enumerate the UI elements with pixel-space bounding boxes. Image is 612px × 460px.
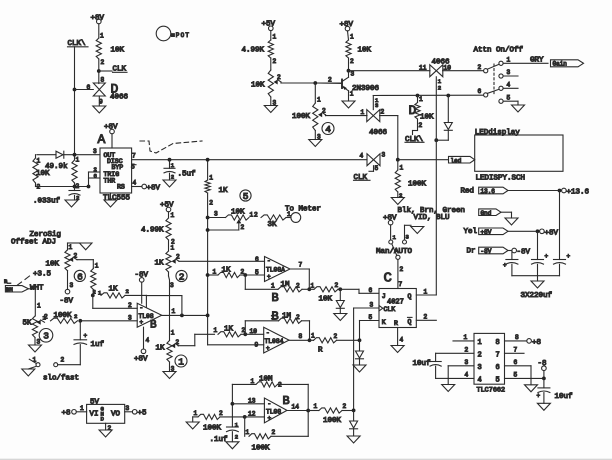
svg-text:1: 1 [314, 403, 318, 410]
svg-text:1: 1 [311, 283, 315, 290]
node [206, 216, 210, 220]
svg-text:+: + [266, 345, 270, 352]
node [231, 402, 235, 406]
wire pin5 [505, 377, 544, 379]
dashed annotation [140, 141, 202, 153]
wire rail vertical [207, 160, 209, 180]
svg-text:1: 1 [171, 245, 175, 252]
diode D1 [37, 154, 56, 156]
wire output [287, 410, 308, 412]
svg-text:2: 2 [335, 282, 339, 289]
svg-text:4: 4 [146, 337, 150, 344]
svg-text:100K: 100K [54, 312, 73, 320]
svg-text:7: 7 [514, 347, 518, 354]
svg-text:3: 3 [406, 234, 409, 241]
svg-text:+8V: +8V [481, 229, 492, 236]
svg-text:2: 2 [334, 333, 338, 340]
svg-text:1: 1 [37, 158, 41, 165]
svg-text:2: 2 [278, 382, 282, 389]
wire wiper to switch [325, 114, 327, 117]
ground [226, 442, 239, 449]
power +8V terminal [97, 19, 102, 24]
svg-text:100K: 100K [252, 445, 271, 453]
wire CLK [354, 307, 379, 309]
node [243, 332, 247, 336]
svg-text:1: 1 [250, 212, 254, 219]
svg-text:2: 2 [424, 314, 428, 321]
svg-text:TL08A: TL08A [266, 267, 285, 274]
svg-text:2: 2 [74, 313, 77, 320]
wire feedback loop [181, 296, 183, 316]
svg-text:1: 1 [271, 283, 275, 290]
ground [99, 430, 112, 437]
wire pin2 [436, 352, 474, 354]
wire pin13 [232, 403, 264, 405]
ground [110, 193, 112, 200]
svg-text:-8: -8 [538, 360, 547, 368]
capacitor C1 .033uf [74, 187, 76, 191]
svg-text:3: 3 [70, 282, 74, 289]
wire pot2 wiper to opamp2 pin6 [179, 260, 265, 262]
svg-text:4: 4 [360, 153, 364, 160]
wire pin7 stub [505, 352, 525, 354]
op-amp U1 TLC555 box [100, 148, 132, 193]
svg-text:4066: 4066 [110, 94, 129, 102]
node CLK [97, 69, 101, 73]
svg-text:1: 1 [171, 330, 175, 337]
svg-text:4: 4 [133, 180, 137, 187]
designator 5 [240, 190, 251, 201]
node [73, 88, 77, 92]
svg-text:12: 12 [248, 411, 256, 418]
svg-text:1: 1 [171, 212, 175, 219]
node [347, 69, 351, 73]
note POT circle [156, 26, 171, 41]
wire to ground [28, 366, 36, 369]
ground [512, 105, 525, 112]
svg-text:2: 2 [74, 253, 78, 260]
svg-text:1: 1 [350, 34, 354, 41]
wire CLK\ vertical [74, 47, 76, 160]
svg-text:Q: Q [408, 293, 412, 300]
svg-text:2: 2 [61, 357, 65, 364]
svg-text:1: 1 [178, 356, 184, 367]
wire [98, 96, 100, 106]
svg-text:+: + [84, 333, 88, 340]
svg-text:4.99K: 4.99K [141, 227, 164, 235]
node [73, 185, 77, 189]
analog switch U2b 4066 [430, 65, 437, 77]
resistor R14 1K [91, 269, 96, 290]
svg-text:Gnd: Gnd [481, 210, 492, 217]
svg-text:10K: 10K [46, 261, 60, 269]
svg-text:4: 4 [400, 337, 404, 344]
svg-text:Yel: Yel [464, 228, 478, 236]
svg-text:2: 2 [219, 410, 223, 417]
svg-text:100K: 100K [408, 181, 427, 189]
wire pot3 bottom [34, 338, 36, 346]
output +5 [125, 411, 133, 413]
svg-text:3: 3 [128, 315, 132, 322]
svg-text:6: 6 [77, 271, 83, 282]
analog switch U2a 4066 [93, 83, 105, 90]
wire feedback verticals [231, 384, 233, 427]
scan artifact bottom edge [0, 458, 612, 460]
svg-text:C: C [384, 271, 392, 287]
svg-text:3: 3 [375, 102, 378, 109]
wire [98, 59, 100, 84]
svg-text:13: 13 [248, 398, 256, 405]
switch S2 pole [396, 255, 400, 259]
svg-text:K: K [382, 319, 386, 326]
wire [28, 288, 35, 290]
svg-text:7: 7 [132, 153, 136, 160]
svg-text:1: 1 [37, 303, 41, 310]
wire caps common [512, 275, 560, 277]
wire pin4 +8V [132, 186, 142, 188]
svg-text:2: 2 [126, 288, 129, 295]
svg-text:GRY: GRY [530, 57, 544, 65]
svg-text:2: 2 [128, 302, 132, 309]
svg-text:2: 2 [273, 58, 277, 65]
svg-text:5K: 5K [23, 320, 33, 328]
node [416, 94, 420, 98]
svg-text:1: 1 [361, 109, 365, 116]
wire bottom [36, 186, 89, 188]
svg-text:10K: 10K [36, 170, 50, 178]
svg-text:1K: 1K [156, 345, 166, 353]
node [338, 287, 342, 291]
svg-text:-8V: -8V [517, 249, 531, 257]
wire control [372, 96, 374, 110]
svg-text:BYP: BYP [112, 164, 124, 171]
svg-text:10K: 10K [319, 296, 333, 304]
wire control [435, 77, 437, 295]
svg-text:2: 2 [322, 108, 326, 115]
svg-text:LEDISPY.SCH: LEDISPY.SCH [476, 175, 526, 183]
ground [29, 345, 42, 352]
resistor R7 1K [208, 274, 218, 276]
transistor Q1 2N3906 [341, 80, 343, 89]
switch S1 pole2 [484, 93, 488, 97]
svg-text:2: 2 [438, 85, 441, 92]
svg-text:8: 8 [515, 334, 519, 341]
node +8V [536, 229, 540, 233]
svg-text:2: 2 [235, 434, 238, 441]
svg-text:7: 7 [399, 281, 403, 288]
wire pin3 [80, 320, 137, 322]
svg-text:+: + [545, 253, 549, 260]
svg-text:3: 3 [465, 359, 469, 366]
svg-text:2: 2 [381, 109, 385, 116]
capacitor C4 220uf [511, 251, 513, 260]
wire [168, 240, 170, 251]
ground [93, 106, 106, 113]
capacitor C3 1uf [79, 321, 81, 340]
svg-text:RS: RS [117, 184, 125, 191]
svg-text:BM: BM [6, 286, 13, 293]
svg-text:8: 8 [101, 77, 105, 84]
svg-text:5: 5 [369, 314, 373, 321]
meter terminal [291, 213, 301, 223]
ground [347, 436, 360, 443]
svg-text:3: 3 [507, 69, 511, 76]
svg-text:2N3906: 2N3906 [352, 85, 380, 93]
svg-text:-: - [268, 401, 272, 408]
node [73, 153, 77, 157]
svg-text:.5uf: .5uf [178, 171, 197, 179]
pot VR1 wiper path [178, 345, 195, 347]
svg-text:2: 2 [272, 429, 276, 436]
svg-text:1: 1 [100, 33, 104, 40]
svg-text:5: 5 [131, 164, 135, 171]
svg-text:5V: 5V [90, 399, 100, 407]
svg-text:+8V: +8V [383, 215, 397, 223]
wire pin4 [448, 377, 474, 379]
ground [530, 378, 532, 384]
svg-text:1: 1 [478, 339, 482, 347]
node [308, 338, 312, 342]
resistor R19 10K [417, 96, 419, 103]
svg-text:6: 6 [87, 84, 91, 91]
svg-text:A: A [98, 132, 106, 147]
svg-text:2: 2 [176, 339, 180, 346]
svg-text:5: 5 [507, 95, 511, 102]
svg-text:6: 6 [255, 256, 259, 263]
svg-text:+: + [503, 262, 507, 269]
ground [353, 365, 366, 372]
svg-text:.1uf: .1uf [210, 436, 229, 444]
switch S1 throw4 [499, 99, 503, 103]
ground [342, 101, 355, 108]
svg-text:100K: 100K [292, 113, 311, 121]
wire [397, 260, 399, 289]
wire pot1 bottom [169, 362, 171, 372]
wire [397, 192, 399, 198]
svg-text:+: + [267, 274, 271, 281]
svg-text:THR: THR [104, 178, 116, 185]
wire Q [416, 294, 436, 296]
node [313, 81, 317, 85]
svg-text:LEDdisplay: LEDdisplay [475, 129, 521, 137]
svg-text:VI: VI [90, 411, 99, 419]
svg-text:8: 8 [299, 333, 303, 340]
ground [163, 372, 176, 379]
svg-text:led: led [451, 157, 462, 164]
switch link dashed [493, 64, 495, 94]
wire pot4 bottom [314, 131, 316, 140]
svg-text:+8V: +8V [104, 124, 118, 132]
wire pin4 ground [397, 328, 399, 346]
designator 3 [39, 329, 53, 343]
resistor R11 1M [279, 318, 302, 323]
svg-text:B: B [150, 320, 157, 332]
svg-text:3: 3 [170, 282, 174, 289]
svg-text:R: R [394, 320, 398, 327]
node [307, 287, 311, 291]
svg-text:3: 3 [43, 331, 49, 342]
svg-text:6: 6 [496, 364, 500, 372]
svg-text:6: 6 [514, 359, 518, 366]
switch S1 throw1 [499, 61, 503, 65]
svg-text:+: + [140, 319, 144, 326]
svg-text:1: 1 [33, 357, 37, 364]
wire [373, 94, 483, 96]
switch slo/fast [36, 363, 40, 367]
svg-text:1M: 1M [282, 313, 292, 321]
designator 6 [74, 270, 85, 281]
svg-text:5: 5 [496, 376, 500, 384]
wire pot2 bottom long [168, 272, 170, 276]
regulator U4 box [87, 404, 125, 423]
wire [443, 70, 484, 72]
op-amp U3d TL08 [264, 398, 287, 423]
resistor R21 100K [192, 417, 194, 422]
node [206, 158, 210, 162]
resistor R13 1K [91, 294, 95, 298]
ground [65, 200, 78, 207]
capacitor C5 220uf [537, 231, 539, 259]
terminal -8 [542, 366, 547, 371]
ground [264, 106, 277, 113]
svg-text:-8V: -8V [135, 272, 149, 280]
svg-text:3X220uf: 3X220uf [521, 292, 553, 300]
resistor R17 4.99K [268, 40, 273, 58]
svg-text:2: 2 [296, 314, 300, 321]
wire pin2 [92, 295, 94, 308]
wire pin1 stub [453, 340, 474, 342]
svg-text:1: 1 [464, 334, 468, 341]
wire pin6 [505, 365, 532, 367]
svg-text:1: 1 [214, 327, 218, 334]
svg-text:+8V: +8V [134, 356, 148, 364]
node [243, 273, 247, 277]
wire [349, 70, 431, 72]
svg-text:1: 1 [76, 157, 80, 164]
svg-text:1: 1 [251, 378, 255, 385]
wire output [290, 268, 309, 270]
svg-text:J: J [382, 293, 386, 300]
svg-text:+5: +5 [138, 410, 148, 418]
svg-text:2: 2 [478, 351, 482, 359]
svg-text:slo/fast: slo/fast [43, 375, 79, 383]
svg-text:1K: 1K [155, 260, 165, 268]
ground [163, 180, 176, 187]
diode D4 [447, 96, 449, 123]
svg-text:14: 14 [292, 404, 300, 411]
svg-text:10uf: 10uf [555, 393, 574, 401]
svg-text:+13.6: +13.6 [567, 189, 590, 197]
svg-text:2: 2 [179, 271, 185, 282]
pot VR5 10K [208, 217, 226, 219]
analog switch U2d 4066 [367, 154, 374, 166]
svg-text:1M: 1M [281, 281, 291, 289]
svg-text:2: 2 [419, 122, 423, 129]
svg-text:-: - [266, 330, 270, 337]
resistor R16 10K [346, 40, 351, 58]
wire [380, 115, 398, 117]
node [396, 158, 400, 162]
svg-text:2: 2 [241, 224, 245, 231]
node [243, 415, 247, 419]
svg-text:4066: 4066 [369, 129, 388, 137]
svg-text:+8V: +8V [340, 21, 354, 29]
node [306, 409, 310, 413]
ground [186, 422, 199, 429]
resistor R2 10K [33, 158, 38, 183]
resistor R3 49.9k [72, 160, 77, 183]
svg-text:+: + [537, 393, 541, 400]
capacitor C9 .1uf [227, 426, 239, 428]
pot VR2 1K [166, 251, 171, 272]
resistor R4 4.99K [166, 218, 171, 240]
capacitor C6 220uf [559, 191, 561, 260]
ground [442, 385, 455, 392]
node [358, 338, 362, 342]
diode D3 [359, 340, 361, 351]
svg-text:49.9k: 49.9k [45, 163, 68, 171]
svg-text:2: 2 [343, 403, 347, 410]
svg-text:8: 8 [496, 339, 500, 347]
svg-text:1: 1 [209, 175, 213, 182]
wire TRIG THR [88, 172, 90, 187]
svg-text:7: 7 [299, 262, 303, 269]
wire wiper [77, 259, 93, 261]
svg-text:TLC555: TLC555 [103, 195, 131, 203]
designator 4 [322, 123, 334, 135]
svg-text:Offset ADJ: Offset ADJ [11, 239, 56, 247]
svg-text:13.6: 13.6 [481, 188, 496, 195]
node [352, 409, 356, 413]
svg-text:6: 6 [94, 173, 97, 180]
svg-text:1: 1 [246, 429, 250, 436]
svg-text:2: 2 [209, 200, 213, 207]
svg-text:≡POT: ≡POT [171, 32, 190, 39]
svg-text:2: 2 [465, 347, 469, 354]
wire control CLK [373, 166, 375, 172]
wire [75, 89, 94, 91]
resistor R5 1K [205, 180, 210, 193]
wire feedback [244, 275, 246, 289]
svg-text:3: 3 [351, 71, 355, 78]
terminal -8V [512, 248, 517, 253]
wire pin4 +8V [143, 327, 145, 349]
node [206, 273, 210, 277]
svg-text:1: 1 [419, 96, 423, 103]
svg-text:To Meter: To Meter [285, 206, 321, 214]
capacitor C2 .5uf [169, 160, 171, 169]
svg-text:-: - [267, 258, 271, 265]
svg-text:4: 4 [507, 82, 511, 89]
node [180, 314, 184, 318]
diode D5 [353, 410, 355, 421]
wire [74, 183, 76, 187]
ground pin2 [105, 423, 107, 430]
svg-text:Dr: Dr [467, 248, 476, 256]
svg-text:100K: 100K [323, 417, 342, 425]
svg-text:1: 1 [317, 97, 321, 104]
svg-text:4: 4 [325, 124, 331, 135]
wire [270, 58, 272, 70]
net flag Gain [551, 60, 584, 67]
svg-text:VO: VO [111, 411, 121, 419]
svg-text:+3.5: +3.5 [33, 271, 52, 279]
svg-text:+8: +8 [62, 410, 71, 418]
analog switch U2c 4066 [367, 110, 374, 122]
pin 5 stub [132, 164, 136, 166]
svg-text:+: + [268, 415, 272, 422]
svg-text:3: 3 [126, 405, 130, 412]
